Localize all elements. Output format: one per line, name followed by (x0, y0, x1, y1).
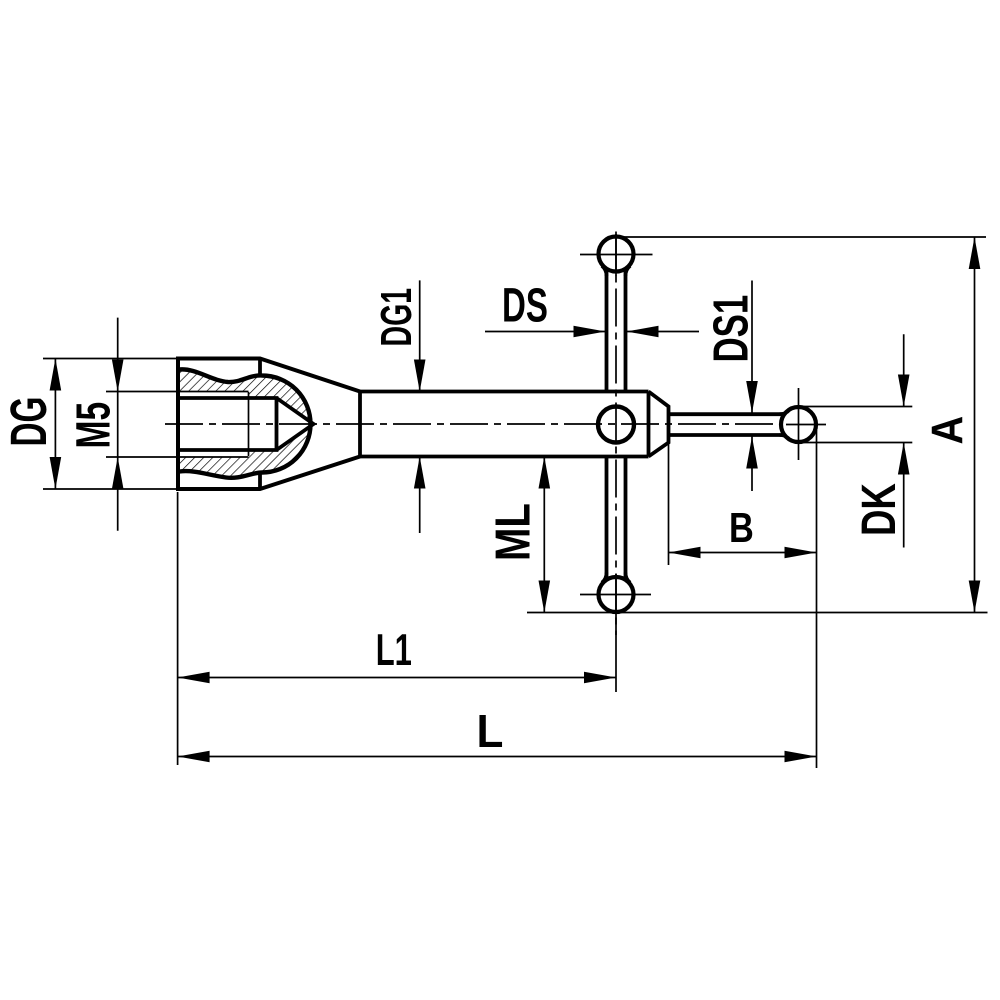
stem end edge (647, 392, 651, 457)
svg-text:DS: DS (502, 280, 548, 333)
vertical bar upper (605, 270, 609, 392)
cavity wavy outline + dome (180, 369, 311, 477)
svg-text:M5: M5 (67, 402, 121, 449)
vertical bar lower (605, 457, 609, 581)
top ball crosshair (580, 254, 653, 256)
L1 right extension (615, 613, 617, 692)
body corner edge bottom (258, 473, 262, 490)
bottom ball (599, 577, 634, 612)
M5 arrows (outside pointing in) (112, 360, 124, 392)
DG extension lines (43, 358, 176, 360)
svg-text:DG: DG (0, 397, 57, 447)
A dimension line (974, 237, 976, 613)
B left extension (668, 443, 670, 565)
M5 dimension line (117, 318, 119, 531)
thread major thin line top (178, 391, 249, 393)
DK arrows (outside pointing in) (898, 375, 910, 407)
stem chamfer cone (649, 392, 669, 457)
threaded bore rectangle (178, 398, 277, 450)
DG arrows (50, 359, 62, 391)
DK dimension line (903, 334, 905, 406)
stem outline (360, 390, 649, 394)
B/L right extension (816, 430, 818, 768)
svg-text:B: B (729, 504, 754, 551)
B arrows (669, 547, 701, 559)
svg-text:DK: DK (853, 483, 906, 536)
DS dimension line (485, 331, 606, 333)
thread major thin line bottom (178, 456, 249, 458)
svg-text:A: A (924, 416, 973, 445)
A bottom extension (527, 612, 988, 614)
thread end thin line (248, 392, 250, 456)
bar centerline (615, 232, 617, 636)
A arrows (969, 237, 981, 269)
DG dimension line (54, 359, 56, 490)
holder body outline (178, 359, 360, 490)
DK extension lines (800, 406, 912, 408)
svg-text:ML: ML (487, 503, 541, 561)
hatch fill region (section cavity) (178, 369, 314, 477)
DS1 arrows (outside pointing in) (746, 381, 758, 413)
M5 extension lines (106, 391, 178, 393)
bottom ball crosshair (580, 594, 651, 596)
neck fillets bar/rod to balls (602, 266, 630, 276)
main centerline (165, 423, 778, 425)
svg-text:DG1: DG1 (373, 288, 421, 347)
svg-text:L: L (477, 705, 504, 757)
top ball (599, 237, 634, 272)
DG1 dimension line (419, 280, 421, 391)
L arrows (178, 751, 210, 763)
drill cone (277, 398, 314, 450)
end ball crosshair (798, 388, 800, 460)
ML dimension line (543, 457, 545, 613)
DG1 arrows (outside pointing in) (414, 360, 426, 392)
L1 arrows (178, 672, 210, 684)
L1 dimension line (178, 677, 616, 679)
ML arrows (inside pointing out) (539, 457, 551, 489)
svg-text:L1: L1 (376, 626, 412, 675)
end ball (781, 407, 816, 442)
rod to end ball (669, 412, 785, 416)
arrowheads (50, 237, 981, 762)
DS1 dimension line (751, 281, 753, 414)
DS arrows (outside pointing in) (574, 326, 606, 338)
L dimension line (178, 756, 817, 758)
bottom ball crosshair vertical (615, 574, 617, 614)
stem start edge (358, 392, 362, 457)
svg-text:DS1: DS1 (705, 295, 759, 363)
A top extension (620, 236, 986, 238)
left extension for L1/L (177, 492, 179, 765)
body corner edge top (258, 359, 262, 375)
intersection circle (598, 407, 634, 443)
B dimension line (669, 552, 817, 554)
